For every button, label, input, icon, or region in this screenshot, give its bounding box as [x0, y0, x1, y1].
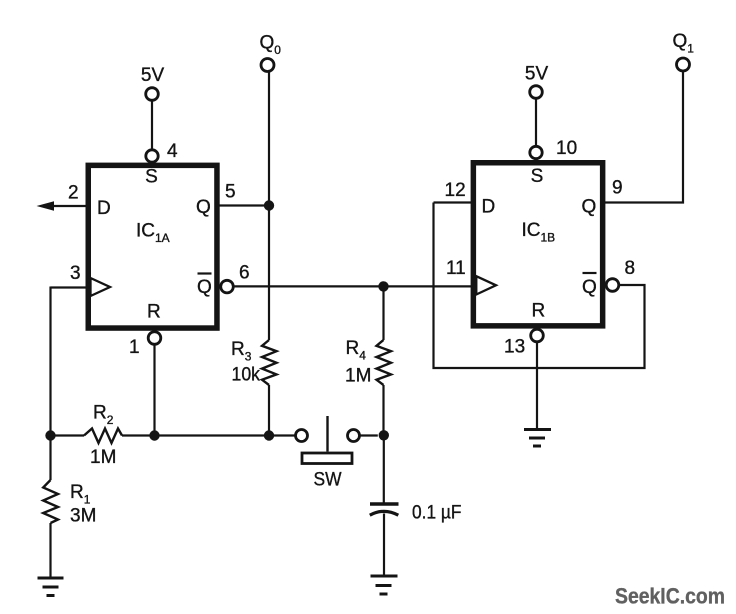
arrowhead pin 2: [37, 201, 55, 211]
wire pin 1 down: [153, 344, 155, 436]
wire pin 9 to Q1: [603, 72, 683, 203]
svg-text:1: 1: [129, 337, 140, 358]
svg-text:10k: 10k: [232, 365, 261, 386]
svg-text:10: 10: [556, 138, 577, 159]
svg-text:Q: Q: [582, 197, 597, 218]
wire node to R3 node: [155, 434, 270, 436]
svg-text:S: S: [145, 167, 158, 188]
feedback wire pin 8 to pin 12: [434, 203, 645, 369]
node R3 bottom: [264, 430, 274, 440]
resistor R1: [43, 436, 96, 578]
capacitor curved plate: [370, 511, 399, 515]
svg-text:13: 13: [504, 337, 525, 358]
flip-flop IC1B body: [473, 163, 602, 326]
IC1B clock triangle pin 11: [476, 276, 496, 294]
wire capacitor to ground: [383, 514, 385, 576]
svg-text:S: S: [531, 166, 544, 187]
svg-text:5: 5: [225, 182, 236, 203]
wire pin 2: [54, 205, 86, 207]
wire pin 13 to ground: [536, 342, 538, 429]
svg-text:11: 11: [446, 258, 466, 279]
IC1A clock triangle pin 3: [91, 278, 111, 296]
node pin1/R2: [149, 430, 159, 440]
svg-text:9: 9: [612, 178, 623, 199]
pin 13 circle: [531, 329, 544, 342]
node R4 bottom / switch right: [379, 430, 389, 440]
wire 5V to pin 10: [535, 100, 537, 147]
svg-text:12: 12: [445, 180, 466, 201]
wire 5V to pin 4: [151, 102, 153, 150]
svg-text:2: 2: [68, 183, 79, 204]
pin 10 circle: [530, 146, 542, 158]
svg-text:Q: Q: [582, 277, 597, 298]
node R1/R2/pin3: [45, 430, 55, 440]
junction node R4 top: [378, 281, 388, 291]
svg-text:R: R: [147, 302, 161, 323]
svg-text:4: 4: [167, 141, 178, 162]
Q0 terminal circle: [261, 59, 274, 72]
wire node down to capacitor: [383, 436, 385, 503]
junction node pin5/Q0 rail: [264, 200, 274, 210]
5V terminal circle: [146, 88, 159, 101]
svg-text:D: D: [97, 198, 111, 219]
switch SW: [296, 416, 378, 491]
svg-text:3M: 3M: [70, 506, 96, 527]
svg-text:5V: 5V: [141, 65, 165, 86]
pin 1 circle: [148, 332, 161, 345]
flip-flop IC1A body: [88, 165, 217, 328]
svg-text:1M: 1M: [90, 447, 116, 468]
pin 4 circle: [146, 150, 158, 162]
svg-text:8: 8: [625, 258, 636, 279]
resistor R3: [231, 339, 277, 436]
svg-text:6: 6: [239, 263, 250, 284]
svg-text:3: 3: [70, 263, 81, 284]
svg-text:Q: Q: [196, 197, 211, 218]
svg-text:R: R: [532, 301, 546, 322]
wire pin 12: [434, 201, 473, 203]
ground under capacitor: [371, 576, 398, 594]
wire left rail down to R1/R2 node: [49, 287, 51, 436]
capacitor 0.1uF top plate: [370, 502, 399, 505]
ground under pin 13: [524, 430, 551, 447]
svg-text:1M: 1M: [345, 366, 371, 387]
wire pin6 to IC1B clock pin 11: [234, 285, 473, 287]
svg-text:SeekIC.com: SeekIC.com: [615, 584, 725, 609]
svg-text:0.1 µF: 0.1 µF: [412, 503, 462, 524]
Q1 terminal circle: [677, 58, 690, 71]
ground under R1: [38, 578, 64, 596]
resistor R4: [345, 286, 391, 435]
5V terminal circle B: [530, 86, 543, 99]
resistor R2: [51, 403, 155, 469]
pin 8 circle: [606, 279, 619, 292]
svg-text:SW: SW: [314, 470, 342, 491]
pin 6 circle: [221, 280, 234, 293]
wire pin 5 Q to node: [218, 204, 269, 206]
svg-text:D: D: [482, 197, 496, 218]
wire Q0 rail down to R3: [268, 73, 270, 341]
wire node to switch left: [269, 434, 295, 436]
wire into pin 3: [51, 286, 88, 288]
svg-text:Q: Q: [197, 277, 212, 298]
svg-text:5V: 5V: [525, 64, 549, 85]
